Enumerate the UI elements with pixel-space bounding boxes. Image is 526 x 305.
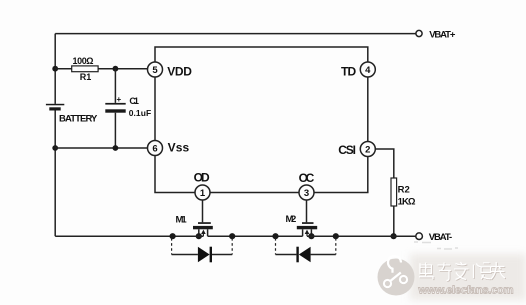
node D2 anode junction [333,233,339,239]
pin 1 OD [195,185,210,200]
svg-text:VBAT+: VBAT+ [429,30,456,41]
wire bottom rail segment 2 [208,235,303,237]
watermark faint specks [414,242,458,249]
svg-text:M1: M1 [176,214,188,225]
IC U1 body [155,47,368,193]
wire R1 left [55,68,71,70]
svg-text:3: 3 [304,188,309,199]
node R2 rail junction [391,233,397,239]
resistor R1 [72,66,98,72]
wire C1 top [114,69,116,103]
svg-text:CSI: CSI [338,143,356,157]
svg-text:C1: C1 [129,96,139,106]
wire OD gate [202,200,204,223]
svg-text:OC: OC [299,171,315,185]
wire left rail upper [54,34,56,104]
diode D1 body diode of M1 [172,238,233,262]
pin 1 circle [195,185,210,200]
wire Vss to battery [55,147,148,149]
transistor M1 [193,222,213,236]
wire bottom rail segment 1 [55,235,203,237]
svg-text:100Ω: 100Ω [73,56,94,66]
svg-text:VBAT-: VBAT- [429,232,453,243]
node D2 cathode junction [272,233,278,239]
svg-text:TD: TD [341,65,357,79]
pin 3 OC [299,185,314,200]
node battery/Vss junction [52,145,58,151]
svg-text:www.elecfans.com: www.elecfans.com [418,285,514,297]
terminal VBAT+ [416,30,422,36]
node C1 bottom junction [113,145,119,151]
wire left rail lower [54,111,56,237]
pin 6 Vss [148,141,163,156]
wire OC gate [306,200,308,223]
resistor R2 [391,178,397,206]
node R1/C1 junction [113,66,119,72]
svg-text:OD: OD [194,171,210,185]
svg-text:R1: R1 [80,72,92,82]
pin 4 circle [360,62,375,77]
svg-text:2: 2 [365,144,370,155]
battery BT1 [46,104,64,111]
wire CSI to R2 [375,149,394,178]
svg-text:1KΩ: 1KΩ [398,197,416,208]
node M2 source junction [308,233,314,239]
svg-text:5: 5 [152,65,158,76]
wire R2 bottom [393,206,395,236]
wire top rail to VBAT+ [55,33,416,35]
svg-text:6: 6 [152,143,157,154]
svg-text:BATTERY: BATTERY [59,113,98,124]
capacitor C1 [105,103,125,113]
pin 5 VDD [148,62,163,77]
svg-text:M2: M2 [286,214,297,225]
wire C1 bottom [114,113,116,148]
pin 5 circle [148,62,163,77]
wire bottom rail segment 3 [307,235,416,237]
pin 2 CSI [360,142,375,157]
svg-text:0.1uF: 0.1uF [129,108,152,118]
pin 4 TD [360,62,375,77]
pin 2 circle [360,142,375,157]
diode D2 body diode of M2 [276,238,336,262]
node M1 source junction [196,233,202,239]
watermark tint blob [410,254,526,300]
transistor M2 [297,222,317,236]
pin 3 circle [299,185,314,200]
svg-text:Vss: Vss [168,141,190,155]
watermark chinese text [420,263,506,282]
node D1 cathode junction [229,233,235,239]
terminal VBAT- [416,233,423,240]
svg-text:1: 1 [200,188,206,199]
svg-text:VDD: VDD [167,65,192,79]
svg-text:+: + [117,95,122,104]
svg-text:4: 4 [365,65,371,76]
watermark logo disc [378,256,415,295]
svg-text:R2: R2 [398,185,410,196]
node R1 left junction [52,66,58,72]
wire R1 right to VDD pin [98,68,148,70]
pin 6 circle [148,141,163,156]
node D1 anode junction [170,233,176,239]
